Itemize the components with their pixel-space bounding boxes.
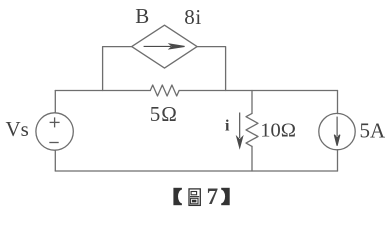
- current source 5A (circle): [319, 113, 355, 149]
- wire right branch above 5A source: [337, 91, 339, 114]
- dependent source B (diamond): [132, 25, 197, 68]
- svg-text:7: 7: [207, 184, 219, 209]
- wire left branch above Vs: [54, 91, 56, 113]
- svg-text:5A: 5A: [360, 119, 387, 143]
- caption bracket right: [217, 188, 230, 205]
- resistor 10ohm zigzag: [246, 113, 258, 146]
- voltage source Vs (circle): [36, 113, 73, 150]
- wire 10-ohm branch top lead: [251, 91, 253, 114]
- svg-text:i: i: [225, 118, 230, 135]
- wire top left: from left corner to 5-ohm resistor: [55, 90, 150, 92]
- voltage source minus sign: [49, 142, 58, 144]
- caption bracket left: [173, 188, 186, 205]
- svg-text:B: B: [135, 4, 149, 28]
- svg-text:8i: 8i: [184, 5, 202, 29]
- voltage source plus sign: [50, 117, 60, 127]
- dependent source arrow: [144, 44, 185, 49]
- current arrow i (next to 10-ohm): [237, 113, 243, 148]
- caption character tu (figure): [189, 189, 200, 206]
- svg-text:10Ω: 10Ω: [260, 119, 296, 141]
- current source 5A arrow: [334, 117, 340, 146]
- wire bottom: [55, 170, 337, 172]
- svg-text:5Ω: 5Ω: [150, 102, 178, 126]
- wire top right: from 5-ohm resistor to top-right corner: [179, 90, 337, 92]
- resistor 5ohm zigzag: [150, 85, 179, 96]
- wire from diamond right vertex down to top wire: [197, 47, 226, 91]
- wire 10-ohm branch bottom lead: [251, 146, 253, 171]
- svg-text:Vs: Vs: [6, 117, 29, 141]
- wire from diamond left vertex down to top wire: [103, 47, 132, 91]
- wire right branch below 5A source: [337, 150, 339, 171]
- wire left branch below Vs: [54, 150, 56, 171]
